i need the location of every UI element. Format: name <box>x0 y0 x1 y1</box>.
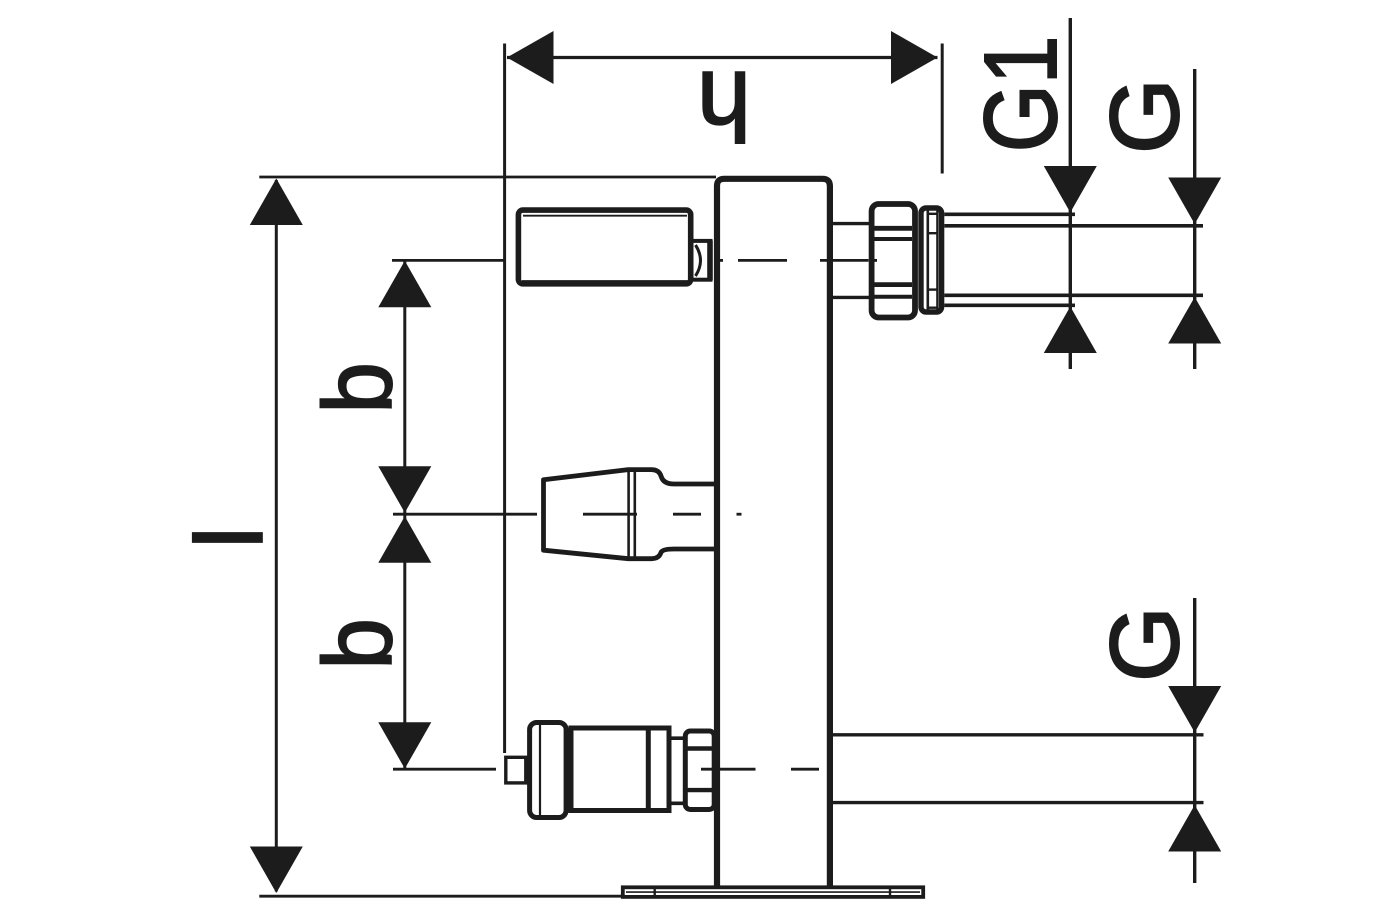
svg-text:G: G <box>1090 606 1199 682</box>
svg-text:h: h <box>697 52 751 161</box>
centerline top fitting <box>392 259 877 262</box>
bottom fitting body <box>571 728 669 811</box>
gauge connector neck <box>691 241 711 280</box>
compression ring tick 4 <box>928 307 937 309</box>
dimension G bottom line <box>1193 598 1196 883</box>
cone seam line 2 <box>633 469 636 559</box>
arrow G bottom down <box>1168 686 1221 733</box>
bottom fitting neck top <box>667 736 686 740</box>
union nut facet line 2 <box>875 237 913 241</box>
compression ring inner line 1 <box>926 210 929 310</box>
base plate <box>623 887 923 897</box>
middle cone fitting outline <box>544 470 717 559</box>
arrow G1 up <box>1044 307 1097 354</box>
arrow b2 down <box>378 722 431 769</box>
thread core line bottom <box>944 293 1203 297</box>
compression ring inner line 2 <box>936 210 938 310</box>
arrow G bottom up <box>1168 805 1221 852</box>
dimension G top line <box>1193 69 1196 369</box>
bottom fitting nut facet line top <box>686 746 712 750</box>
union nut connector line bottom <box>832 296 869 299</box>
base plate tick right <box>889 888 891 897</box>
arrow h left <box>507 31 554 84</box>
svg-text:l: l <box>179 529 281 547</box>
gauge inner seam line <box>523 215 687 217</box>
gauge connector end face <box>707 241 713 281</box>
gauge connector arc <box>696 245 701 276</box>
arrow b1 down <box>378 466 431 513</box>
label G top <box>1090 78 1199 154</box>
bottom fitting neck bottom <box>667 801 686 805</box>
bottom fitting flange <box>530 723 567 818</box>
dimension h line <box>507 56 938 59</box>
compression ring tick 2 <box>928 232 937 234</box>
thread outer line bottom <box>944 303 1075 307</box>
label b2 <box>304 618 413 669</box>
bottom fitting nut <box>685 731 714 810</box>
dimension h extension line right <box>941 44 944 174</box>
union nut facet line 4 <box>875 295 913 299</box>
arrow b1 up <box>378 261 431 308</box>
dimension h extension line left <box>503 44 506 754</box>
bottom fitting nut facet line bottom <box>686 788 712 792</box>
thread core line top <box>944 224 1203 228</box>
dimension b line <box>403 262 406 769</box>
label G1 <box>963 36 1078 153</box>
arrow G top up <box>1168 297 1221 344</box>
bottom outlet pipe bottom line <box>832 801 1203 804</box>
arrow G1 down <box>1044 166 1097 213</box>
base plate tick left <box>654 888 656 897</box>
dimension l line <box>275 180 278 892</box>
svg-text:b: b <box>304 362 413 413</box>
arrow l top <box>250 179 303 226</box>
bottom fitting pin <box>506 757 526 783</box>
arrow b2 up <box>378 516 431 563</box>
label h (rotated 180) <box>697 52 751 161</box>
dimension G1 line <box>1069 18 1072 369</box>
dimension l extension line bottom <box>259 895 624 898</box>
compression ring tick 3 <box>928 288 937 290</box>
compression ring tick 1 <box>928 213 937 215</box>
svg-text:G1: G1 <box>963 36 1078 153</box>
label l <box>179 529 281 547</box>
label b1 <box>304 362 413 413</box>
arrow l bottom <box>250 847 303 894</box>
compression ring body <box>921 208 942 312</box>
union nut facet line 3 <box>875 282 913 287</box>
column (riser pipe body) <box>717 179 830 887</box>
arrow G top down <box>1168 178 1221 225</box>
dimension l extension line top <box>259 176 716 179</box>
centerline middle fitting <box>393 513 742 516</box>
bottom fitting ring line <box>646 728 651 811</box>
centerline bottom fitting <box>393 768 819 771</box>
gauge bottom edge thickening <box>522 280 688 284</box>
gauge fitting (top left) body <box>518 210 690 284</box>
base plate inner line <box>626 891 920 893</box>
arrow h right <box>891 31 938 84</box>
bottom outlet pipe top line <box>832 733 1203 736</box>
union nut body <box>872 204 915 318</box>
thread outer line top <box>944 213 1075 217</box>
cone seam line 1 <box>627 470 630 559</box>
label G bottom <box>1090 606 1199 682</box>
svg-text:G: G <box>1090 78 1199 154</box>
union nut connector line top <box>832 222 869 225</box>
bottom fitting flange seam <box>539 723 541 817</box>
svg-text:b: b <box>304 618 413 669</box>
union nut facet line 1 <box>875 226 913 231</box>
